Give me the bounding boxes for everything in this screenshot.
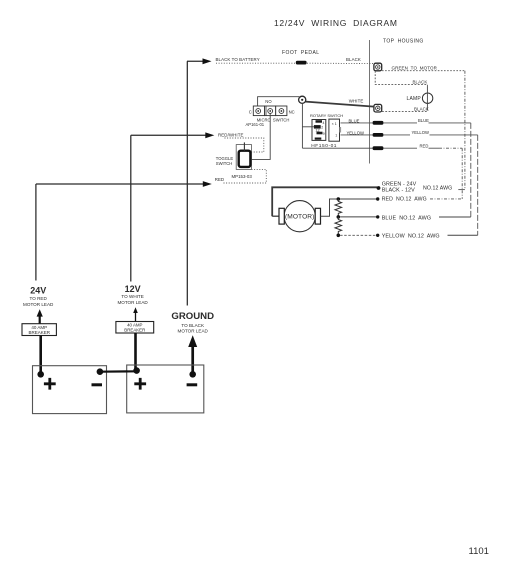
- label RED: [215, 177, 224, 182]
- svg-text:RED: RED: [215, 177, 224, 182]
- svg-text:SWITCH: SWITCH: [216, 161, 233, 166]
- svg-text:MP153-03: MP153-03: [232, 174, 253, 179]
- wire lamp upper black lead: [375, 71, 427, 87]
- wire series link B1 negative to B2 positive: [100, 370, 137, 373]
- label YELLOW (right): [412, 130, 430, 135]
- svg-text:MOTOR LEAD: MOTOR LEAD: [23, 302, 54, 307]
- wire red/white dotted to toggle: [225, 138, 264, 152]
- wire splice to rotary terminal 2: [302, 103, 314, 148]
- svg-text:BLACK: BLACK: [414, 107, 429, 112]
- node resistor bottom: [337, 234, 341, 238]
- svg-text:YELLOW NO.12 AWG: YELLOW NO.12 AWG: [382, 234, 440, 240]
- label BLACK (lamp bottom): [414, 107, 429, 112]
- svg-text:TO RED: TO RED: [30, 296, 48, 301]
- label TOGGLE SWITCH: [216, 156, 234, 166]
- wire breaker CB2 to battery B2 positive: [134, 333, 137, 371]
- svg-text:24V: 24V: [30, 286, 46, 296]
- label LAMP: [407, 96, 422, 102]
- connector splice on black wire: [296, 61, 307, 65]
- svg-text:2: 2: [321, 126, 323, 130]
- title 12/24V WIRING DIAGRAM: [274, 18, 398, 28]
- svg-text:C: C: [249, 109, 252, 114]
- svg-text:× 1: × 1: [332, 122, 337, 126]
- wire 24V arrow to breaker: [37, 309, 43, 323]
- svg-text:BREAKER: BREAKER: [124, 328, 145, 333]
- label page number 1101: [469, 546, 489, 557]
- svg-text:TO WHITE: TO WHITE: [121, 294, 143, 299]
- micro switch AP161-01: [253, 106, 287, 116]
- connector splice on red wire: [373, 146, 384, 150]
- terminal T1 (green to motor): [374, 63, 382, 71]
- node foot pedal splice C1: [299, 96, 306, 103]
- svg-text:BLACK: BLACK: [413, 80, 428, 85]
- label C: [249, 109, 252, 114]
- connector splice on blue wire: [373, 121, 384, 125]
- svg-text:MOTOR LEAD: MOTOR LEAD: [178, 329, 209, 334]
- wire micro switch C to splice: [258, 97, 301, 106]
- node resistor top: [337, 197, 341, 201]
- wire 12V arrow to breaker: [133, 307, 138, 321]
- svg-text:RED: RED: [420, 144, 429, 149]
- svg-text:BREAKER: BREAKER: [28, 330, 50, 335]
- wire micro switch NO to toggle: [252, 114, 271, 160]
- wire black-to-battery (left vertical to GROUND): [187, 58, 212, 305]
- svg-text:NC: NC: [289, 109, 295, 114]
- svg-text:NO.12 AWG: NO.12 AWG: [423, 185, 452, 191]
- svg-text:12/24V WIRING DIAGRAM: 12/24V WIRING DIAGRAM: [274, 18, 398, 28]
- svg-text:BLUE NO.12 AWG: BLUE NO.12 AWG: [382, 215, 431, 221]
- svg-text:BLACK: BLACK: [346, 57, 361, 62]
- wire 24V feed vertical: [35, 184, 37, 281]
- svg-text:(MOTOR): (MOTOR): [285, 214, 315, 221]
- svg-text:MOTOR LEAD: MOTOR LEAD: [117, 300, 148, 305]
- svg-text:YELLOW: YELLOW: [347, 130, 365, 135]
- battery B1: [33, 366, 107, 414]
- label HF150-01: [311, 143, 337, 149]
- label GROUND: [171, 311, 214, 334]
- svg-text:GREEN TO MOTOR: GREEN TO MOTOR: [392, 65, 438, 70]
- label AP161-01: [246, 122, 265, 127]
- wire yellow vertical right side: [477, 135, 479, 235]
- svg-text:4: 4: [323, 121, 325, 125]
- svg-text:BLACK TO BATTERY: BLACK TO BATTERY: [216, 57, 260, 62]
- label YELLOW (left): [347, 130, 365, 135]
- svg-text:AP161-01: AP161-01: [246, 122, 265, 127]
- wire motor top lead to green/black label: [272, 186, 380, 216]
- svg-text:GROUND: GROUND: [171, 311, 214, 322]
- wire red lead with arrow: [36, 181, 212, 187]
- label BLUE NO.12 AWG: [382, 215, 431, 221]
- svg-text:BLUE: BLUE: [349, 118, 360, 123]
- wire red/white lead with arrow: [131, 132, 215, 138]
- svg-text:WHITE: WHITE: [349, 99, 364, 104]
- resistor R1: [335, 199, 342, 217]
- lamp: [422, 87, 432, 109]
- terminal T2 (white): [374, 104, 382, 112]
- svg-text:1: 1: [335, 134, 337, 138]
- svg-text:12V: 12V: [125, 284, 141, 294]
- label BLUE (right): [418, 118, 429, 123]
- label 24V: [23, 286, 54, 307]
- label MP153-03: [232, 174, 253, 179]
- motor: [279, 201, 321, 232]
- svg-text:BLUE: BLUE: [418, 118, 429, 123]
- wire green to motor (dashed, to right edge): [382, 70, 465, 72]
- svg-text:TOP HOUSING: TOP HOUSING: [383, 39, 424, 45]
- label RED/WHITE: [218, 132, 244, 137]
- wire top-housing boundary line: [369, 40, 371, 164]
- label RED (right): [420, 144, 429, 149]
- label GREEN - 24V / BLACK - 12V: [382, 182, 453, 194]
- svg-text:a: a: [323, 132, 325, 136]
- wire blue vertical right side: [470, 123, 472, 217]
- wire yellow no.12 awg lead: [340, 234, 478, 237]
- svg-text:YELLOW: YELLOW: [412, 130, 430, 135]
- wire foot pedal black lead (dotted): [216, 62, 375, 64]
- label WHITE: [349, 99, 364, 104]
- wire green vertical down right side: [458, 71, 465, 190]
- label TOP HOUSING: [383, 39, 424, 45]
- svg-text:RED NO.12 AWG: RED NO.12 AWG: [382, 197, 427, 203]
- label MICRO SWITCH: [257, 117, 290, 122]
- wire red lead from toggle branch to red connector: [302, 147, 462, 149]
- toggle switch MP153-03: [236, 142, 251, 169]
- label BLACK (lamp top): [413, 80, 428, 85]
- wire blue no.12 awg lead: [340, 215, 471, 218]
- label YELLOW NO.12 AWG: [382, 234, 440, 240]
- label 12V: [117, 284, 148, 305]
- wire motor right lead to resistor node: [321, 199, 337, 216]
- label NO: [265, 99, 272, 104]
- wire red dotted to toggle bottom: [224, 169, 267, 183]
- wire red housing lead down to red awg label: [461, 148, 463, 199]
- connector splice on yellow wire: [373, 133, 384, 137]
- label ROTARY SWITCH: [310, 113, 343, 118]
- wire white lead: [306, 102, 374, 107]
- wire yellow lead from rotary: [341, 134, 478, 136]
- wire 12V feed vertical: [130, 135, 132, 281]
- svg-text:1101: 1101: [469, 546, 489, 557]
- rotary switch HF150-01: [312, 119, 341, 141]
- circuit breaker CB2 40 AMP: [116, 322, 154, 334]
- svg-text:LAMP: LAMP: [407, 96, 422, 102]
- node resistor middle: [337, 215, 341, 219]
- svg-text:RED/WHITE: RED/WHITE: [218, 132, 244, 137]
- label GREEN TO MOTOR: [392, 65, 438, 70]
- wire ground arrow from battery B2 negative: [188, 335, 197, 374]
- svg-text:FOOT PEDAL: FOOT PEDAL: [282, 50, 319, 56]
- svg-text:12: 12: [315, 128, 319, 132]
- label BLACK (foot pedal wire): [346, 57, 361, 62]
- label BLUE (left): [349, 118, 360, 123]
- wire blue lead from rotary: [341, 122, 471, 124]
- svg-text:NO: NO: [265, 99, 272, 104]
- wire lamp lower black lead: [382, 109, 428, 112]
- label FOOT PEDAL: [282, 50, 319, 56]
- resistor R2: [335, 217, 342, 235]
- wire breaker CB1 to battery B1 positive: [39, 336, 42, 375]
- svg-text:ROTARY SWITCH: ROTARY SWITCH: [310, 113, 343, 118]
- circuit breaker CB1 40 AMP: [22, 324, 56, 336]
- wire red no.12 awg lead: [340, 197, 462, 200]
- svg-text:BLACK - 12V: BLACK - 12V: [382, 187, 415, 193]
- battery B2: [127, 365, 204, 413]
- svg-text:TO BLACK: TO BLACK: [181, 323, 205, 328]
- label RED NO.12 AWG: [382, 197, 427, 203]
- label BLACK TO BATTERY: [216, 57, 260, 62]
- label NC: [289, 109, 295, 114]
